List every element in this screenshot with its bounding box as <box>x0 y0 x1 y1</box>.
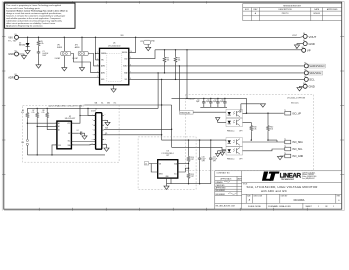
svg-text:C11: C11 <box>213 157 216 159</box>
svg-text:ISO_I2C: ISO_I2C <box>291 103 299 105</box>
wire U5 outputs right <box>239 104 260 123</box>
resistor R8 <box>42 108 57 130</box>
wire U6 outputs to iso terminals <box>243 140 285 151</box>
svg-text:SENSE-: SENSE- <box>122 52 128 54</box>
resistor R7 <box>32 108 57 156</box>
svg-text:ENGINEER: ENGINEER <box>216 190 226 192</box>
svg-text:GND: GND <box>166 176 169 178</box>
label LTC4151-1 OPTION <box>287 98 306 105</box>
wire SDA/SDAI line <box>129 72 304 74</box>
svg-text:REVISION HISTORY: REVISION HISTORY <box>283 6 302 8</box>
svg-text:OPT: OPT <box>166 155 169 157</box>
svg-text:C10: C10 <box>202 157 205 159</box>
wire bottom bus <box>27 154 105 156</box>
svg-text:R5: R5 <box>41 41 43 43</box>
svg-text:T3: T3 <box>284 146 286 148</box>
svg-text:OPT: OPT <box>239 159 242 161</box>
LT logo mark <box>262 172 280 181</box>
resistor R15 <box>187 173 194 185</box>
node junction D2 <box>27 37 28 38</box>
svg-text:ADR0: ADR0 <box>75 46 80 49</box>
wire pullup rail eeprom <box>27 108 158 115</box>
svg-text:however, it remains the custom: however, it remains the customer's respo… <box>6 14 65 17</box>
svg-text:GND: GND <box>309 85 315 89</box>
svg-text:CONTRACT NO.: CONTRACT NO. <box>216 172 230 175</box>
capacitor C8 <box>220 98 227 105</box>
jumper JP1 SHDN <box>55 45 71 61</box>
node junction B drop <box>157 72 158 73</box>
svg-text:WP: WP <box>68 133 70 135</box>
signature scribbles <box>224 181 237 194</box>
label PS8101-1 OPT <box>227 130 243 132</box>
svg-text:Fax: (408)434-0507: Fax: (408)434-0507 <box>302 178 314 180</box>
node junction C drop <box>161 79 162 80</box>
svg-text:15pF: 15pF <box>213 101 217 103</box>
svg-text:6.2k: 6.2k <box>41 43 44 45</box>
ground below JP5 <box>146 47 151 50</box>
svg-text:C8: C8 <box>221 99 223 101</box>
ground at GND E10 <box>297 88 302 91</box>
wire JP1 to ground <box>63 56 65 68</box>
svg-text:VIN: VIN <box>8 35 12 39</box>
svg-text:ISO_VP: ISO_VP <box>292 112 301 115</box>
U3 pin labels <box>159 162 177 178</box>
zone ticks bottom <box>39 208 307 211</box>
svg-text:OPT: OPT <box>202 161 205 163</box>
capacitor C10 <box>198 139 206 184</box>
svg-text:SCL: SCL <box>124 79 127 81</box>
jumper JP2 ADR0 <box>73 45 89 61</box>
terminal SCL E9 <box>304 76 315 82</box>
svg-text:R15: R15 <box>191 174 194 176</box>
svg-text:and reliable operation in the: and reliable operation in the actual app… <box>6 17 61 20</box>
wire JP6 to bus <box>26 145 28 155</box>
wire U3 SDA to R14 <box>178 163 189 165</box>
wire SDAO drop <box>178 66 180 112</box>
wire JP2 to ground <box>81 56 83 68</box>
svg-text:C7: C7 <box>214 99 216 101</box>
svg-text:R7: R7 <box>32 110 34 112</box>
ground left of U5 ch2 <box>216 118 227 123</box>
resistor R14 <box>187 139 194 162</box>
wire net flag to U3 <box>149 164 158 173</box>
svg-text:E4: E4 <box>303 33 305 35</box>
svg-text:DATE: DATE <box>237 177 242 180</box>
svg-text:3.3k: 3.3k <box>253 128 256 130</box>
svg-text:R4: R4 <box>178 58 180 60</box>
svg-text:DATE: DATE <box>314 8 320 11</box>
svg-text:12: 12 <box>145 163 147 165</box>
svg-text:VSS: VSS <box>58 145 61 147</box>
svg-text:SHDN/SDAO: SHDN/SDAO <box>180 111 191 114</box>
ground under U6 left <box>216 151 227 157</box>
dashed box quick eval <box>23 105 120 162</box>
net labels J1 wires <box>95 101 117 135</box>
net flag 12V left of U3 <box>144 162 149 166</box>
wire GND to ground <box>18 54 24 56</box>
svg-text:OPT: OPT <box>213 161 216 163</box>
svg-text:OPT: OPT <box>239 130 242 132</box>
wire U1 SENSE- up to rail <box>129 37 136 52</box>
svg-text:APPROVALS: APPROVALS <box>221 177 233 180</box>
ground at GND E5 <box>294 45 299 48</box>
svg-text:0.047µF: 0.047µF <box>42 53 48 55</box>
LT logo wordmark <box>280 173 302 181</box>
capacitor C4 bypass <box>77 130 85 136</box>
svg-text:C6: C6 <box>207 99 209 101</box>
svg-text:SHDN: SHDN <box>57 47 63 49</box>
resistor R5 <box>37 37 44 46</box>
svg-text:7V - 75V: 7V - 75V <box>8 41 17 43</box>
svg-text:E6: E6 <box>302 47 304 49</box>
ground under U3 <box>164 184 169 190</box>
J1 pin numbers <box>91 114 106 145</box>
terminal VP E6 <box>296 47 311 53</box>
svg-text:VIN: VIN <box>101 60 104 62</box>
resistor R4 pullup <box>174 49 180 80</box>
wire JP2 to U1 pin <box>88 54 99 66</box>
ground below D2 <box>25 51 30 54</box>
svg-text:VCC: VCC <box>67 123 70 125</box>
terminal ISO_SDA <box>284 139 303 144</box>
ground at GND terminal <box>21 56 26 59</box>
svg-text:C5: C5 <box>197 99 199 101</box>
terminal ADR E3 <box>8 74 18 80</box>
svg-text:JP5: JP5 <box>140 41 143 43</box>
node junction R5 <box>38 37 39 38</box>
wire U2 VSS <box>52 145 57 155</box>
resistor R6 <box>21 108 57 139</box>
svg-text:OPT: OPT <box>191 176 194 178</box>
svg-text:SHDN: SHDN <box>159 174 163 176</box>
svg-text:Phone: (408)432-1900: Phone: (408)432-1900 <box>302 176 316 178</box>
svg-text:C1: C1 <box>42 51 44 53</box>
svg-text:T1: T1 <box>284 110 286 112</box>
svg-text:R12: R12 <box>270 126 273 128</box>
svg-text:GND: GND <box>309 42 315 46</box>
svg-text:SIZE: SIZE <box>247 196 250 198</box>
svg-text:SHDN/SDAO: SHDN/SDAO <box>309 64 324 68</box>
wire R drop to iso scl <box>171 105 173 147</box>
svg-text:SCL: SCL <box>68 141 71 143</box>
resistor R3 pullup <box>163 49 169 74</box>
ground below JP2 <box>79 68 84 71</box>
wire SDA drop to eeprom rail <box>157 73 159 109</box>
svg-text:1: 1 <box>333 206 334 208</box>
sheet outer edge lines <box>2 1 344 210</box>
svg-text:SHEET: SHEET <box>306 206 313 208</box>
svg-text:24LC025-I/ST: 24LC025-I/ST <box>65 118 76 120</box>
jumper JP6 <box>21 139 28 145</box>
ground below JP1 <box>62 68 67 71</box>
capacitor C11 <box>209 139 217 183</box>
svg-text:DC590: DC590 <box>91 111 96 113</box>
terminal ISO_SCL <box>284 146 303 151</box>
jumper JP5 GND <box>140 40 155 47</box>
svg-text:GND: GND <box>8 52 14 56</box>
svg-text:E8: E8 <box>304 70 306 72</box>
wire U3 SCL bend <box>178 168 189 172</box>
dashed box iso option <box>186 95 314 171</box>
svg-text:VP: VP <box>307 49 311 53</box>
svg-text:E7: E7 <box>304 63 306 65</box>
svg-text:ADR: ADR <box>8 76 14 80</box>
svg-text:LTC4151-1 OPTION: LTC4151-1 OPTION <box>287 98 306 100</box>
svg-text:ISO_SDA: ISO_SDA <box>292 141 303 144</box>
svg-text:REV: REV <box>337 196 340 198</box>
svg-text:R6: R6 <box>22 110 24 112</box>
ground right top of U5 <box>260 104 266 107</box>
op IC U1 LTC4151CDD <box>100 43 129 85</box>
terminal SHDN/SDAO E7 <box>304 63 325 69</box>
svg-text:with ADC and I2C: with ADC and I2C <box>261 189 287 193</box>
svg-text:SCL: SCL <box>174 174 177 176</box>
capacitor C7 <box>213 98 220 105</box>
terminal GND E2 <box>8 51 18 56</box>
svg-text:R10: R10 <box>253 126 256 128</box>
svg-text:Applications Engineering for a: Applications Engineering for assistance. <box>6 25 43 28</box>
capacitor C5 <box>196 98 206 105</box>
svg-text:OPT: OPT <box>191 159 194 161</box>
capacitor C1 <box>37 46 49 57</box>
svg-text:T4: T4 <box>284 153 286 155</box>
revision history table <box>243 4 342 21</box>
wire netbox to opto U5 <box>193 111 226 113</box>
size row <box>247 196 340 198</box>
ground J1 right upper <box>104 120 110 125</box>
wire ADR to U1 <box>18 77 99 79</box>
dashed box U3 option <box>138 137 196 190</box>
node junction A drop <box>179 65 180 66</box>
svg-text:ECO: ECO <box>245 9 250 11</box>
wire J1 SDA out <box>104 128 172 130</box>
svg-text:ENGINEER: ENGINEER <box>216 194 226 196</box>
resistor R10 <box>250 122 257 140</box>
svg-text:1: 1 <box>318 206 319 208</box>
terminal GND E10 <box>300 83 315 89</box>
ground under C4 <box>82 136 87 139</box>
wire eeprom SCL link <box>80 104 172 106</box>
diode D2 BAT46W <box>19 37 30 50</box>
disclaimer note box <box>5 3 75 28</box>
svg-text:E2: E2 <box>15 51 17 53</box>
wire C1 to ground <box>38 55 40 65</box>
svg-text:E3: E3 <box>15 74 17 76</box>
opto U5 channel 1 <box>226 109 243 117</box>
wire to JP2 <box>81 37 83 51</box>
svg-text:R14: R14 <box>191 157 194 159</box>
svg-text:15pF: 15pF <box>206 101 210 103</box>
svg-text:0.1µF: 0.1µF <box>213 159 217 161</box>
svg-text:15pF: 15pF <box>196 101 200 103</box>
svg-text:PROTO: PROTO <box>282 13 289 15</box>
svg-text:10k: 10k <box>178 60 181 62</box>
bottom row <box>248 205 334 208</box>
svg-text:GND: GND <box>107 102 110 104</box>
svg-text:APPROVED: APPROVED <box>327 8 338 11</box>
svg-text:QUICK EVAL DEMO CIRCUITRY ONLY: QUICK EVAL DEMO CIRCUITRY ONLY <box>48 104 84 107</box>
svg-text:R3: R3 <box>167 58 169 60</box>
svg-text:E5: E5 <box>303 40 305 42</box>
U2 pin labels <box>58 122 71 147</box>
terminal ISO_VP <box>284 110 301 115</box>
svg-text:SCL: SCL <box>101 102 104 104</box>
svg-text:GND: GND <box>151 40 156 42</box>
border frame <box>4 2 342 209</box>
svg-text:8/14/08: 8/14/08 <box>314 13 320 15</box>
wire U1 VDD to VP rail <box>129 50 155 59</box>
svg-text:DC1096A: DC1096A <box>294 199 305 202</box>
opto U6 channel 1 <box>226 138 243 146</box>
wire VP rail <box>155 49 302 51</box>
wire ISO_SCL line <box>172 147 226 150</box>
svg-text:D2: D2 <box>19 43 21 45</box>
ground at ISO_GND <box>277 156 284 160</box>
svg-text:DWG CODE: DWG CODE <box>254 196 262 198</box>
svg-text:4.7k: 4.7k <box>42 112 45 114</box>
ground below U1 <box>111 89 116 92</box>
node junction VP drop <box>186 49 187 50</box>
svg-text:DRAWN:: DRAWN: <box>216 181 224 184</box>
svg-text:J1: J1 <box>95 108 97 110</box>
U1 pin numbers <box>97 51 132 80</box>
svg-text:DESCRIPTION: DESCRIPTION <box>279 9 293 11</box>
svg-text:C4: C4 <box>77 130 79 132</box>
terminal GND E5 top right <box>297 40 315 46</box>
opto U6 channel 2 <box>226 147 243 155</box>
svg-text:SENSE+: SENSE+ <box>101 53 107 55</box>
svg-text:affect circuit performance or: affect circuit performance or reliabilit… <box>6 22 55 25</box>
svg-text:LTC4151CDD: LTC4151CDD <box>108 45 121 47</box>
zone ticks top <box>39 1 207 3</box>
terminal ISO_GND <box>284 153 303 158</box>
zone ticks left and right <box>2 37 344 175</box>
svg-text:JP6: JP6 <box>21 142 24 144</box>
svg-text:PS8101-1: PS8101-1 <box>227 159 235 161</box>
node junction SENSE- rail <box>135 37 136 38</box>
svg-text:TECHNOLOGY: TECHNOLOGY <box>281 179 295 181</box>
svg-text:E10: E10 <box>303 83 306 85</box>
label PS8101-1 OPT U6 <box>227 159 243 161</box>
svg-text:4.7k: 4.7k <box>21 112 24 114</box>
svg-text:VIN: VIN <box>159 163 161 165</box>
terminal VIN E1 <box>8 34 19 43</box>
U2 pin numbers <box>55 122 73 146</box>
IC U3 LTC4151CMS-1 <box>158 151 178 178</box>
svg-text:SDA/SDAI: SDA/SDAI <box>309 71 321 75</box>
capacitor C6 <box>206 98 213 105</box>
wire VIN drop to U1 pins <box>96 37 100 60</box>
svg-text:VOUT: VOUT <box>309 35 317 39</box>
svg-text:DWG NO: DWG NO <box>281 196 288 198</box>
svg-text:VCC: VCC <box>114 102 117 104</box>
LT address block <box>302 171 316 179</box>
svg-text:SCALE: NONE: SCALE: NONE <box>248 205 261 208</box>
wire SHDN/SDAO line <box>129 65 304 67</box>
svg-text:4.7k: 4.7k <box>32 112 35 114</box>
wire caps top rail <box>172 97 247 99</box>
wire SCL line <box>129 78 304 80</box>
svg-text:ISO_GND: ISO_GND <box>292 155 303 158</box>
svg-text:CHECKED: CHECKED <box>216 185 225 187</box>
IC U2 24LC025 <box>57 116 75 149</box>
J1 pin stubs <box>94 116 104 145</box>
svg-text:E1: E1 <box>15 34 17 36</box>
svg-text:Customer Notice: Linear Techno: Customer Notice: Linear Technology has m… <box>6 9 68 12</box>
node junction R14-R15 <box>188 162 189 173</box>
svg-text:0.1µF: 0.1µF <box>202 159 206 161</box>
svg-text:SCL: SCL <box>309 78 315 82</box>
connector J1 <box>91 108 102 149</box>
svg-text:10k: 10k <box>167 60 170 62</box>
wire SCL drop <box>161 79 163 140</box>
svg-text:3.3k: 3.3k <box>270 128 273 130</box>
node junction ISO_VP <box>267 113 268 114</box>
wire U1 GND pin to ground <box>113 85 115 89</box>
svg-text:for use with Linear Technology: for use with Linear Technology parts. <box>6 7 40 10</box>
resistor R12 <box>267 113 274 141</box>
wire U3 bottom rail <box>167 178 211 184</box>
svg-text:FILENAME: 1096A-4.DSN: FILENAME: 1096A-4.DSN <box>268 205 291 208</box>
wire U2 to J1 wires <box>71 105 95 145</box>
wire to JP1 <box>63 37 65 51</box>
svg-text:design a circuit that meets cu: design a circuit that meets customer-sup… <box>6 12 62 15</box>
terminal VOUT E4 <box>292 33 316 39</box>
wire VP drop to iso rail <box>186 50 188 99</box>
ground stub above U3 box <box>220 150 224 155</box>
wire ISO_SDA line <box>162 140 226 141</box>
svg-text:15pF: 15pF <box>220 101 224 103</box>
svg-text:E9: E9 <box>304 76 306 78</box>
terminal SDA/SDAI E8 <box>304 70 322 76</box>
net label box SHDN/SDAO <box>179 110 193 114</box>
svg-text:substitution and printed circu: substitution and printed circuit board l… <box>6 20 62 23</box>
svg-text:This circuit is proprietary to: This circuit is proprietary to Linear Te… <box>6 4 61 7</box>
wire caps bottom rail <box>200 104 227 107</box>
wire VIN rail to VOUT <box>18 36 300 38</box>
ground J1 right lower <box>104 144 109 151</box>
opto U5 channel 2 <box>226 118 243 126</box>
wire cap rail drop to ISO_VP <box>247 98 284 113</box>
wire J1 SCL out <box>104 134 162 136</box>
svg-text:ISO_SCL: ISO_SCL <box>292 148 303 151</box>
svg-text:R8: R8 <box>42 110 44 112</box>
node junction JP1 <box>64 37 65 38</box>
U1 pin name labels <box>101 52 128 81</box>
node junction JP2 <box>81 37 82 38</box>
node junction VIN drop <box>95 37 96 38</box>
svg-text:VOUT: VOUT <box>292 35 297 37</box>
svg-text:T2: T2 <box>284 139 286 141</box>
wire JP1 to U1 pin <box>71 54 100 73</box>
svg-text:FLOAT: FLOAT <box>55 57 60 60</box>
svg-text:PS8101-1: PS8101-1 <box>227 130 235 132</box>
ground below C1 <box>36 65 41 68</box>
